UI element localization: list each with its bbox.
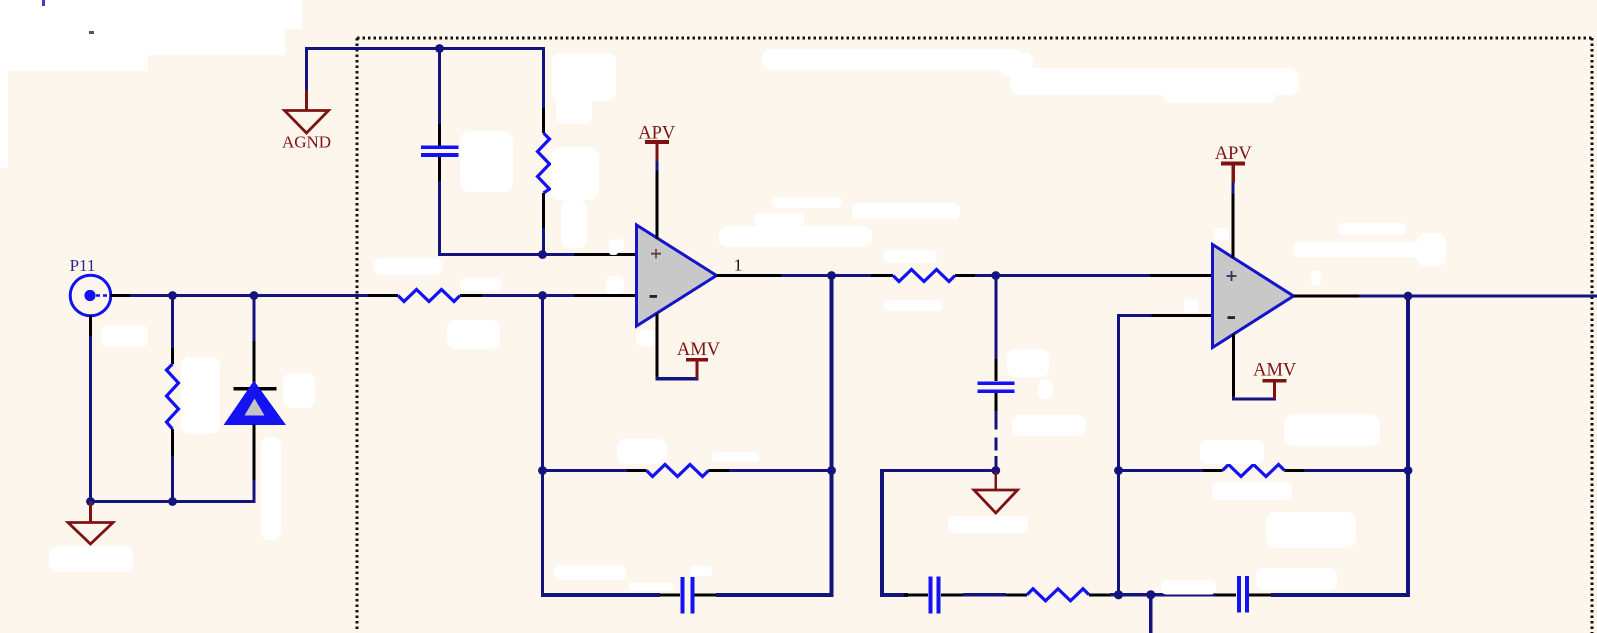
power APV (U1) — [638, 124, 676, 240]
capacitor C2 (bottom stage 1) — [660, 577, 716, 614]
capacitor C1 branch — [421, 49, 459, 257]
wire top rail — [305, 47, 545, 50]
minus column stage 2 — [1117, 314, 1120, 595]
right column stage 2 — [1406, 296, 1410, 597]
junction bottom rail at stub column — [1146, 590, 1155, 599]
junction ground rail at P11 column — [86, 497, 95, 506]
ground GND2 — [974, 471, 1018, 514]
wire ground rail bottom-left — [91, 500, 256, 503]
feedback left column stage 1 — [541, 296, 544, 597]
pin U1 output — [717, 274, 782, 277]
capacitor C3 (shunt to ground) — [978, 276, 1015, 471]
resistor R1 (shunt) — [167, 296, 179, 502]
dotted selection border left — [356, 38, 359, 629]
resistor R3 (series input) — [368, 290, 482, 302]
power AGND — [282, 90, 331, 152]
wire stub down offpage — [1149, 595, 1152, 633]
wire U2 inverting input — [1117, 314, 1152, 317]
dotted selection border top — [357, 37, 1593, 40]
stray dot — [89, 31, 94, 34]
junction R4 right — [827, 466, 836, 475]
white patch top-left staircase — [0, 0, 302, 168]
wire C5 to right column — [1271, 593, 1410, 597]
junction U1 output feedback — [827, 271, 836, 280]
wire C3 node to left column — [882, 469, 996, 472]
wire R3 to U1 inverting input — [482, 294, 574, 297]
white smudges over schematic — [49, 53, 1446, 595]
diode D1 (TVS, cathode up) — [225, 296, 286, 502]
wire R6 to junctions — [1110, 593, 1215, 596]
wire R5 to U2 plus input — [975, 274, 1150, 277]
power APV (U2) — [1215, 144, 1253, 258]
wire bottom rail stage 1 left — [541, 593, 660, 597]
svg-text:AMV: AMV — [677, 340, 721, 360]
wire bottom rail stage 1 right — [716, 593, 834, 597]
op-amp U1 — [637, 225, 717, 326]
wire U1 output to R5 — [781, 274, 871, 277]
svg-text:APV: APV — [1215, 144, 1253, 164]
svg-text:1: 1 — [734, 256, 743, 275]
svg-text:AGND: AGND — [282, 133, 331, 152]
junction top rail / C1 — [435, 44, 444, 53]
pin P11 right — [110, 294, 130, 297]
pin U2 inverting input — [1152, 314, 1213, 317]
pin U2 non-inverting input — [1150, 274, 1213, 277]
junction node at U1 minus column — [538, 291, 547, 300]
junction R7 right — [1404, 466, 1413, 475]
wire C1 bottom to U1 plus node — [438, 253, 574, 256]
wire P11 down to ground rail — [89, 336, 92, 502]
connector P11 — [70, 256, 111, 316]
white patch band below top border — [762, 49, 1022, 70]
power AMV (U1) — [657, 313, 721, 379]
feedback right column stage 1 — [830, 276, 834, 597]
junction U2 output — [1404, 292, 1413, 301]
wire U2 output to right edge — [1359, 295, 1597, 298]
junction U1 plus node — [538, 250, 547, 259]
ground GND1 — [68, 502, 113, 545]
pin U1 inverting input — [574, 294, 637, 297]
junction C3 top — [991, 271, 1000, 280]
white patch column under border — [552, 53, 616, 101]
junction bottom rail at minus column — [1114, 590, 1123, 599]
power AMV (U2) — [1234, 334, 1297, 399]
resistor R7 (feedback 2) — [1119, 465, 1409, 477]
resistor R4 (feedback 1) — [543, 465, 832, 477]
pin P11 bottom — [89, 315, 92, 336]
svg-text:P11: P11 — [70, 256, 96, 275]
junction C3 bottom node — [991, 466, 1000, 475]
wire P11 to R3 — [130, 294, 370, 297]
capacitor C4 (bottom stage 2) — [904, 577, 963, 614]
op-amp U2 — [1213, 245, 1294, 348]
junction node D1 top — [250, 291, 259, 300]
wire bottom rail stage 2 start — [880, 593, 908, 597]
wire AGND riser to top rail — [305, 49, 308, 91]
wire C4 to R6 — [963, 593, 1006, 596]
wire left column down stage 2 — [880, 469, 884, 597]
junction R7 left — [1114, 466, 1123, 475]
junction ground rail at R1 column — [168, 497, 177, 506]
pin U1 non-inverting input — [574, 253, 637, 256]
capacitor C5 (bottom right) — [1215, 576, 1271, 613]
resistor R5 (interstage) — [871, 270, 975, 282]
pin U2 output — [1294, 295, 1360, 298]
svg-text:AMV: AMV — [1253, 361, 1297, 381]
junction node R1 top — [168, 291, 177, 300]
dotted selection border right — [1591, 38, 1594, 633]
resistor R2 branch — [538, 47, 550, 255]
stray mark top-left — [42, 0, 45, 6]
resistor R6 (bottom stage 2) — [1006, 589, 1110, 601]
junction R4 left — [538, 466, 547, 475]
